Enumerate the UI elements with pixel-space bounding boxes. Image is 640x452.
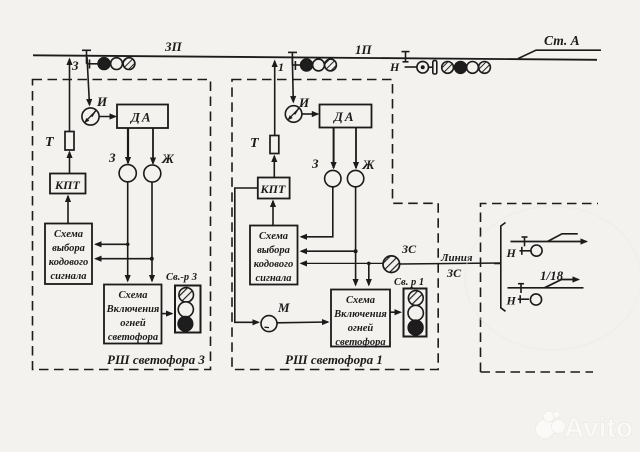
wire КПТ to Т box2 (up arrow): [273, 156, 275, 177]
wire ДА to lamp Ж box1: [152, 128, 154, 164]
wire М to включения box2: [277, 321, 328, 324]
svg-text:1: 1: [278, 60, 284, 74]
svg-text:Схема: Схема: [54, 229, 83, 240]
svg-text:Н: Н: [506, 246, 517, 260]
svg-text:Н: Н: [506, 294, 517, 308]
scan artifact ghost ellipse: [465, 206, 640, 350]
text Схема выбора кодового сигнала box1: [49, 229, 88, 282]
wire lamp Ж down to включения box1 with branch to выбора: [151, 182, 153, 281]
svg-text:Схема: Схема: [118, 290, 147, 301]
dwarf signal Н track 1: [520, 245, 543, 256]
svg-text:Включения: Включения: [106, 304, 160, 315]
svg-text:З: З: [108, 150, 116, 165]
wire ЗС branch down to включения box2: [368, 263, 370, 285]
wire М feed (from КПТ side): [235, 188, 259, 322]
wire feed to rails box1 (up arrow): [69, 59, 71, 131]
wire КПТ to Т box1 (up arrow): [69, 152, 71, 173]
watermark Avito: [536, 411, 633, 443]
svg-text:огней: огней: [348, 323, 374, 334]
wire И to ДА box1: [99, 116, 115, 118]
text Схема выбора кодового сигнала box2: [254, 231, 293, 284]
block Схема включения box1: [104, 285, 162, 344]
svg-text:сигнала: сигнала: [255, 273, 291, 284]
bracket station: [494, 223, 506, 312]
wire mast to relay И box1 (down arrow): [87, 57, 90, 105]
svg-text:Включения: Включения: [333, 309, 387, 320]
wire И to ДА box2: [302, 113, 318, 115]
junction dot box2 Ж: [354, 249, 358, 253]
wire включения to светофор box1: [162, 313, 173, 315]
svg-text:Н: Н: [389, 60, 400, 74]
svg-text:Avito: Avito: [564, 412, 633, 443]
signal Н mast tick: [402, 52, 417, 67]
wire feed to rails box2 (up arrow): [274, 61, 276, 135]
svg-text:РШ светофора 1: РШ светофора 1: [285, 352, 383, 367]
text Схема включения огней светофора box1: [106, 290, 160, 343]
block Схема выбора box2: [250, 226, 298, 285]
svg-text:И: И: [298, 95, 310, 110]
svg-text:ЗС: ЗС: [446, 266, 462, 280]
lamp З box1: [119, 165, 136, 182]
svg-text:Т: Т: [45, 135, 55, 150]
wire выбора to КПТ box1 (up arrow): [67, 196, 69, 223]
wire ЗС line to линия ЗС: [400, 263, 501, 264]
junction dot box1: [150, 257, 154, 261]
dwarf signal Н track 2: [518, 294, 542, 305]
svg-text:1/18: 1/18: [540, 268, 564, 283]
station track 1 line with arrow: [511, 234, 587, 247]
relay ЗС hatched circle: [383, 256, 400, 273]
signal 1 head circles: [301, 59, 337, 71]
svg-text:кодового: кодового: [254, 259, 293, 270]
wire ДА to lamp З box2: [333, 128, 335, 169]
svg-text:Св.-р 3: Св.-р 3: [166, 272, 197, 283]
signal head Св-р 1: [404, 289, 427, 337]
svg-text:И: И: [96, 94, 108, 109]
signal head Св-р 3: [175, 286, 201, 333]
dashed enclosure РШ светофора 1 (with notch): [232, 80, 438, 370]
svg-text:ЗП: ЗП: [164, 39, 183, 54]
station track 2 line with branch arrow: [508, 280, 584, 294]
wire mast to relay И box2 (down arrow): [292, 57, 293, 102]
lamp Ж box2: [347, 170, 363, 186]
wire ДА to lamp Ж box2: [355, 128, 357, 169]
wire lamp З box2 to выбора: [301, 187, 333, 237]
transformer Т box2: [270, 136, 279, 154]
dashed enclosure station box: [481, 204, 599, 373]
wire включения to светофор box2: [390, 311, 401, 313]
svg-text:Ж: Ж: [161, 151, 175, 166]
svg-text:З: З: [71, 58, 79, 73]
lamp Ж box1: [144, 165, 161, 182]
svg-text:КПТ: КПТ: [260, 182, 286, 196]
svg-text:1П: 1П: [355, 42, 373, 57]
relay И box1: [82, 108, 99, 125]
block КПТ box2: [258, 178, 290, 199]
svg-text:ДА: ДА: [130, 110, 153, 125]
wire lamp Ж box2 down to включения with branch to выбора: [355, 187, 357, 285]
block ДА box2: [320, 105, 372, 128]
svg-text:ДА: ДА: [333, 109, 356, 124]
svg-text:КПТ: КПТ: [54, 178, 80, 192]
svg-text:выбора: выбора: [52, 243, 85, 254]
block КПТ box1: [50, 174, 86, 194]
svg-text:Т: Т: [250, 136, 260, 151]
block Схема включения box2: [331, 290, 390, 347]
svg-text:светофора: светофора: [335, 337, 385, 348]
svg-text:кодового: кодового: [49, 257, 88, 268]
block ДА box1: [117, 105, 168, 129]
signal З mast: [82, 50, 98, 68]
svg-text:М: М: [277, 300, 290, 315]
relay И box2: [285, 106, 302, 123]
svg-text:сигнала: сигнала: [50, 271, 86, 282]
svg-text:ЗС: ЗС: [401, 242, 417, 256]
svg-text:Ж: Ж: [362, 157, 376, 172]
svg-text:Схема: Схема: [346, 295, 375, 306]
text Схема включения огней светофора box2: [333, 295, 387, 348]
svg-text:выбора: выбора: [257, 245, 290, 256]
signal З head circles: [98, 58, 135, 70]
dashed enclosure РШ светофора 3: [33, 80, 211, 370]
svg-text:Ст. А: Ст. А: [544, 33, 580, 48]
wire track main line ЗП / 1П: [33, 55, 597, 60]
svg-text:светофора: светофора: [108, 332, 158, 343]
signal Н lens unit: [417, 61, 437, 74]
relay М: [261, 316, 277, 332]
svg-text:Св. р 1: Св. р 1: [394, 277, 424, 288]
signal 1 mast: [288, 52, 301, 70]
block Схема выбора box1: [45, 224, 92, 285]
wire ЗС line to выбора box2: [301, 262, 383, 264]
wire ДА to lamp З box1: [127, 128, 129, 163]
svg-text:З: З: [311, 156, 319, 171]
wire lamp З down to включения box1 with branch to выбора: [127, 182, 129, 281]
wire station turnout branch to Ст.А: [518, 50, 601, 58]
lamp З box2: [325, 170, 341, 186]
transformer Т box1: [65, 132, 74, 151]
svg-text:огней: огней: [120, 318, 146, 329]
svg-text:РШ светофора 3: РШ светофора 3: [107, 352, 205, 367]
svg-text:Схема: Схема: [259, 231, 288, 242]
signal Н head circles: [442, 62, 491, 74]
wire выбора to КПТ box2 (up arrow): [272, 201, 274, 225]
